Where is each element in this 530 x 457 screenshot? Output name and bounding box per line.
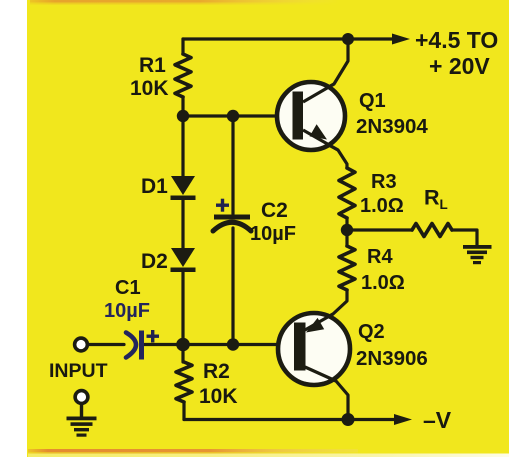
arrowhead: -V rail arrow (394, 414, 412, 425)
input ground terminal circle (67, 391, 97, 437)
wire: R1 bottom to base node (181, 97, 184, 116)
wire: mid node to R4 (345, 230, 348, 246)
wire: C1 to input node and on to Q2 base (143, 343, 295, 346)
svg-text:D1: D1 (141, 175, 168, 198)
svg-text:D2: D2 (141, 250, 168, 273)
svg-text:C2: C2 (261, 199, 288, 222)
junction node: input / R2 / diode chain (176, 338, 190, 352)
junction node: C2 top (227, 110, 239, 122)
wire: Q1 base wire (183, 114, 294, 117)
transistor Q2 (278, 313, 350, 385)
junction node: C2 bottom (227, 338, 239, 350)
junction node: rail / Q1 collector (342, 33, 354, 45)
svg-text:R3: R3 (371, 171, 397, 193)
svg-text:Q1: Q1 (359, 90, 386, 112)
wire: Q2 collector path to bottom rail (305, 367, 348, 420)
capacitor C2 (213, 199, 251, 231)
wire: R2 bottom to bottom rail (182, 402, 185, 420)
wire: RL to ground corner (452, 230, 477, 245)
diode D2 (171, 248, 196, 272)
wire: D1 cathode to D2 anode (181, 199, 184, 249)
wire: R4 bottom into Q2 emitter (305, 290, 347, 330)
svg-text:R2: R2 (203, 360, 230, 383)
svg-text:10µF: 10µF (250, 223, 296, 245)
diode D1 (171, 176, 196, 200)
svg-text:INPUT: INPUT (49, 360, 108, 382)
capacitor C1 (126, 330, 159, 360)
wire: RL branch horizontal (347, 228, 412, 231)
wire: top supply rail (183, 37, 394, 40)
svg-text:2N3906: 2N3906 (356, 347, 428, 370)
wire: ground stem (80, 404, 83, 418)
resistor RL zigzag (412, 224, 452, 237)
wire: D2 cathode down to input node (181, 271, 184, 345)
svg-text:+4.5 TO: +4.5 TO (415, 27, 498, 53)
wire: input line from terminal to C1 (88, 343, 124, 346)
svg-text:R1: R1 (139, 54, 166, 77)
ground (RL) (463, 245, 492, 264)
input terminal (75, 338, 88, 351)
svg-text:10µF: 10µF (104, 300, 150, 322)
transistor Q1 (277, 82, 345, 150)
junction node: bottom rail / Q2 collector (342, 413, 355, 426)
svg-text:–V: –V (423, 407, 452, 433)
resistor R4 zigzag (339, 246, 355, 290)
ground (input) (67, 417, 97, 421)
svg-text:+ 20V: + 20V (429, 53, 490, 79)
svg-text:C1: C1 (115, 277, 141, 299)
wire: Q1 emitter path to R3 (301, 130, 347, 168)
resistor R2 zigzag (176, 362, 192, 402)
svg-text:1.0Ω: 1.0Ω (360, 195, 404, 217)
svg-text:10K: 10K (130, 77, 169, 100)
wire: C2 branch vertical top (231, 116, 234, 214)
svg-text:Q2: Q2 (358, 321, 385, 343)
svg-text:10K: 10K (199, 385, 238, 408)
wire: input node down to R2 (181, 345, 184, 363)
wire: Q1 collector path (301, 40, 348, 102)
wire: R1 top lead from rail corner (181, 39, 184, 54)
resistor R1 zigzag (175, 54, 191, 97)
arrowhead: supply rail arrow (392, 34, 410, 45)
svg-text:1.0Ω: 1.0Ω (361, 272, 405, 294)
wire: R3 bottom to mid node (345, 218, 348, 230)
svg-text:2N3904: 2N3904 (356, 115, 428, 138)
junction node: R1 bottom / Q1 base (177, 110, 189, 122)
svg-text:R4: R4 (367, 246, 393, 268)
wire: node to D1 anode (181, 116, 184, 177)
wire: bottom rail (184, 418, 396, 421)
junction node: R3/R4/RL (341, 224, 353, 236)
wire: C2 branch vertical bottom (231, 228, 234, 345)
resistor R3 zigzag (339, 168, 355, 218)
